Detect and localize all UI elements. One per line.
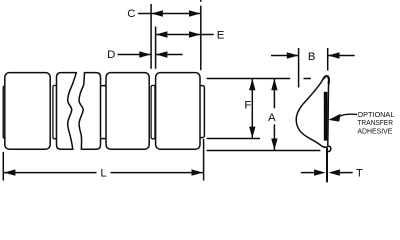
dimension D line and arrows (118, 51, 183, 57)
gasket segment S2 left piece (broken) (57, 73, 77, 150)
dimension D label (107, 49, 115, 61)
clip cross-section profile outer curve with top beak and bottom hook (296, 76, 331, 151)
dimension E line and arrows (156, 31, 214, 37)
dimension L right extension line (203, 139, 205, 181)
dimension C (pitch) line and arrows (138, 10, 201, 16)
adhesive strip (filled bar) (324, 92, 328, 141)
dimension B label (308, 51, 316, 63)
dimension T label (356, 167, 363, 179)
svg-text:B: B (308, 51, 316, 63)
dimension L line and arrows (4, 169, 203, 175)
dimension B left extension line (298, 48, 300, 88)
svg-text:E: E (217, 30, 225, 42)
dimension L left extension line (2, 152, 4, 181)
dimension B line and arrows (271, 52, 355, 58)
dimension C label (127, 8, 135, 20)
F bottom reference line (207, 138, 260, 140)
dimension F line and arrows (249, 79, 255, 139)
mounting tab (right end) (199, 86, 205, 138)
svg-text:A: A (268, 112, 276, 124)
dimension A line and arrows (271, 79, 277, 150)
connecting tab T3 (151, 85, 155, 138)
connecting tab T2 (100, 86, 107, 139)
top reference line (profile top) (207, 78, 311, 80)
connecting tab T1 (53, 85, 57, 138)
dimension L label (100, 167, 106, 179)
dimension A label (268, 112, 276, 124)
dimension D/E extension line V2 (155, 27, 157, 69)
mounting tab (left end) (3, 86, 9, 139)
gasket segment S1 (top view) (5, 73, 50, 150)
svg-text:C: C (127, 8, 135, 20)
gasket segment S4 (top view) (156, 73, 200, 150)
svg-text:L: L (100, 167, 106, 179)
gasket segment S2 right piece (broken) (79, 73, 101, 150)
note text OPTIONAL TRANSFER ADHESIVE (357, 110, 394, 135)
gasket segment S3 (top view) (106, 73, 149, 150)
svg-text:ADHESIVE: ADHESIVE (357, 126, 392, 135)
svg-text:F: F (244, 100, 251, 112)
svg-text:T: T (356, 167, 363, 179)
dimension T extension line (below profile) (326, 148, 328, 183)
dimension C/E extension line V3 (200, 0, 202, 70)
A bottom reference line (207, 150, 321, 152)
dimension T line and arrows (301, 169, 353, 175)
dimension C extension line V1 (150, 4, 152, 69)
dimension F label (244, 100, 251, 112)
leader arrow to adhesive (329, 114, 358, 122)
svg-text:D: D (107, 49, 115, 61)
dimension E label (217, 30, 225, 42)
dimension B right extension line (327, 48, 329, 71)
